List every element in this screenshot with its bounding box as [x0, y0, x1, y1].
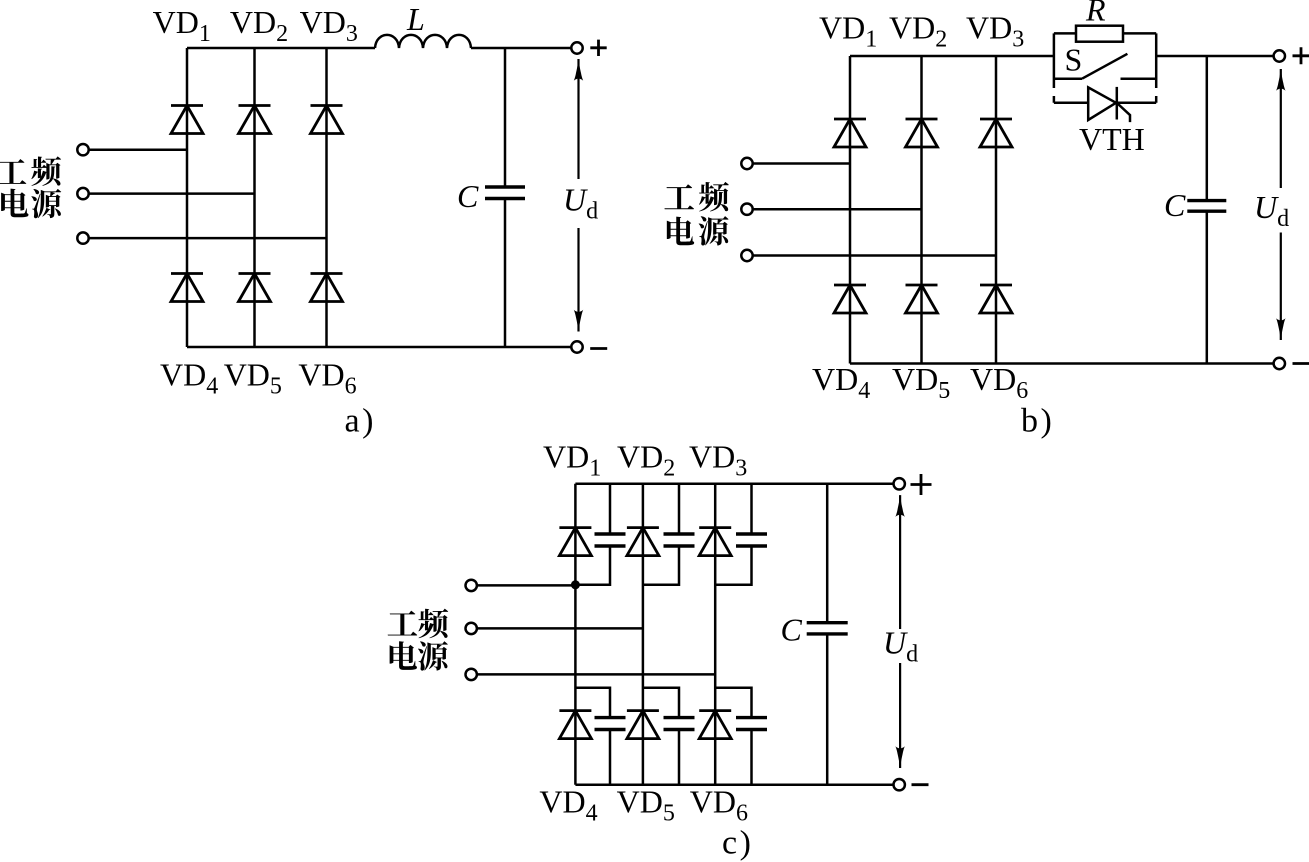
svg-text:VTH: VTH — [1079, 121, 1145, 157]
svg-text:c): c) — [722, 825, 751, 862]
svg-text:L: L — [406, 1, 425, 37]
svg-text:C: C — [1164, 187, 1186, 223]
svg-text:b): b) — [1021, 403, 1052, 440]
svg-text:C: C — [781, 612, 803, 648]
svg-text:S: S — [1065, 42, 1083, 78]
svg-text:R: R — [1085, 0, 1106, 28]
svg-text:a): a) — [345, 403, 374, 440]
svg-text:C: C — [457, 178, 479, 214]
